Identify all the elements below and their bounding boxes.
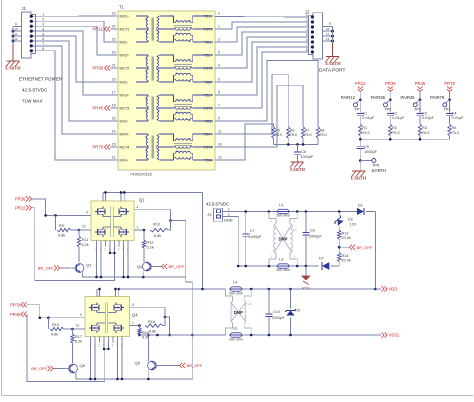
net flag PR45 at T1: [93, 105, 118, 110]
svg-text:2: 2: [306, 18, 308, 22]
svg-text:1: 1: [228, 207, 230, 211]
svg-text:0.01µF: 0.01µF: [362, 116, 375, 120]
wire J1 pin3 to T1: [41, 26, 118, 55]
test point TP4 PAIR78: [430, 95, 451, 112]
svg-text:PR36: PR36: [15, 196, 26, 201]
wire PR12 to Q1 lower input: [32, 208, 115, 281]
svg-text:EARTH: EARTH: [5, 65, 21, 70]
svg-text:TD2-: TD2-: [205, 80, 214, 84]
svg-text:L4: L4: [233, 281, 237, 285]
resistor R9 6.8k: [56, 215, 92, 237]
svg-text:18: 18: [112, 104, 116, 108]
test point TP3 PAIR45: [401, 95, 422, 112]
svg-text:6.8k: 6.8k: [154, 234, 161, 238]
ground EARTH J1: [5, 61, 21, 70]
svg-text:10: 10: [218, 143, 222, 147]
svg-text:R6: R6: [290, 128, 295, 132]
inductor L6 300 ohm: [229, 327, 243, 342]
svg-text:75.0: 75.0: [392, 131, 399, 135]
svg-text:20: 20: [112, 51, 116, 55]
capacitor C1 0.01uF: [357, 100, 375, 124]
wire T1 row8 to J2 pin8: [215, 52, 312, 108]
svg-text:15: 15: [112, 143, 116, 147]
wire T1 row3 to J2 pin3: [215, 27, 312, 42]
net flag BR_OFF Q2: [155, 264, 185, 269]
net flag VDD: [375, 286, 397, 291]
resistor R10 6.8k: [134, 221, 171, 238]
wire VSS1 rail: [140, 334, 382, 337]
svg-text:14: 14: [112, 130, 116, 134]
resistor R15 6.8k: [48, 318, 85, 337]
svg-text:1: 1: [218, 25, 220, 29]
svg-text:R13: R13: [342, 231, 349, 235]
net flag PR78 test network: [444, 81, 455, 100]
svg-text:22: 22: [112, 38, 116, 42]
wire mid top rail: [245, 210, 357, 213]
wire Q6 emitter to rail: [75, 373, 77, 379]
zener D3: [285, 289, 300, 335]
net flag PR12 bridge1: [15, 205, 32, 210]
wire J1 shield to earth: [12, 27, 14, 61]
mosfet Q1A: [95, 207, 105, 217]
wire TP network common rail: [359, 138, 450, 141]
svg-text:C2: C2: [392, 111, 397, 115]
svg-text:TD4-: TD4-: [205, 158, 214, 162]
svg-text:PR45: PR45: [10, 312, 21, 317]
svg-text:MX2+: MX2+: [120, 53, 130, 57]
svg-text:VDD: VDD: [389, 287, 398, 292]
wire Q2 emitter: [142, 271, 144, 277]
svg-text:PR36: PR36: [385, 81, 396, 86]
svg-text:EARTH: EARTH: [290, 167, 305, 172]
svg-text:4: 4: [137, 205, 139, 209]
svg-text:4: 4: [218, 64, 220, 68]
svg-text:6.2k: 6.2k: [75, 340, 82, 344]
svg-text:PAIR12: PAIR12: [341, 95, 356, 100]
svg-text:9: 9: [329, 22, 331, 26]
wire J1 pin8 to T1: [41, 51, 118, 160]
wire T1 row5 to J2 pin5: [215, 37, 312, 68]
svg-text:MX4+: MX4+: [120, 132, 130, 136]
connector J2: [305, 10, 334, 60]
resistor R4 75.0: [448, 124, 459, 139]
wire PR36 to Q1 input: [32, 199, 91, 217]
svg-text:C1: C1: [362, 111, 367, 115]
svg-text:10: 10: [15, 27, 19, 31]
svg-text:PR78: PR78: [444, 81, 455, 86]
wire J1 pin1 to T1: [41, 15, 118, 17]
svg-text:PAIR45: PAIR45: [401, 95, 416, 100]
svg-text:Q6: Q6: [80, 363, 86, 368]
net flag BR_OFF Q3: [38, 265, 72, 270]
svg-text:R1: R1: [362, 126, 367, 130]
svg-text:1000pF: 1000pF: [272, 316, 286, 320]
svg-text:MX4-: MX4-: [120, 158, 129, 162]
svg-text:PR12: PR12: [93, 27, 104, 32]
wire T1 row2 to J2 pin2: [215, 22, 312, 29]
svg-text:L2: L2: [293, 228, 297, 232]
transistor Q5: [135, 334, 160, 370]
svg-text:R16: R16: [148, 320, 155, 324]
bridge Q1 body: [91, 198, 145, 241]
T1 winding group 1: [136, 16, 213, 42]
wire J1 pin2 to T1: [41, 21, 118, 42]
svg-text:0.01µF: 0.01µF: [422, 116, 435, 120]
wire T1 lower row to R network 1: [215, 61, 318, 127]
svg-text:R11: R11: [82, 238, 89, 242]
svg-text:C6: C6: [301, 150, 306, 154]
svg-text:75.0: 75.0: [452, 131, 459, 135]
svg-text:J1: J1: [22, 6, 27, 11]
net flag VSS1: [382, 332, 400, 337]
ground EARTH J2: [325, 57, 341, 66]
svg-text:L1: L1: [279, 203, 283, 207]
wire J1 pin7 to T1: [41, 46, 118, 134]
capacitor C7 1000pF: [242, 212, 262, 267]
svg-text:9: 9: [15, 22, 17, 26]
svg-text:300 ohm: 300 ohm: [229, 338, 243, 342]
svg-text:D1: D1: [358, 204, 363, 208]
svg-text:RTN: RTN: [302, 287, 310, 291]
svg-text:PR45: PR45: [415, 81, 426, 86]
svg-text:71W MAX: 71W MAX: [22, 99, 43, 104]
ground EARTH TP network: [351, 161, 367, 181]
svg-text:1: 1: [306, 13, 308, 17]
svg-text:300 ohm: 300 ohm: [276, 214, 290, 218]
resistor R11 6.2k: [77, 230, 88, 262]
svg-text:R8: R8: [320, 128, 325, 132]
svg-text:ETHERNET POWER: ETHERNET POWER: [19, 77, 63, 82]
svg-text:7490220122: 7490220122: [130, 172, 153, 177]
net flag BR_OFF mid: [339, 245, 373, 250]
capacitor C8 1000pF: [302, 212, 322, 267]
svg-text:5: 5: [218, 51, 220, 55]
svg-text:PAIR36: PAIR36: [371, 95, 386, 100]
svg-text:6: 6: [306, 38, 308, 42]
svg-text:TD3+: TD3+: [204, 93, 213, 97]
svg-text:MCT4: MCT4: [120, 145, 130, 149]
transistor Q3: [72, 263, 92, 273]
svg-text:TD4+: TD4+: [204, 132, 213, 136]
net flag PR36 bridge1: [15, 196, 32, 201]
svg-text:7: 7: [218, 104, 220, 108]
svg-text:75.0: 75.0: [275, 133, 282, 137]
mosfet Q4C: [89, 323, 99, 333]
resistor R12 6.2k: [142, 230, 153, 262]
svg-text:300 ohm: 300 ohm: [276, 268, 290, 272]
svg-text:75.0: 75.0: [305, 133, 312, 137]
svg-text:R17: R17: [75, 335, 82, 339]
resistor R14 20.0k: [338, 253, 351, 267]
wire T1 lower row to R network 3: [215, 85, 303, 147]
svg-text:L5: L5: [248, 302, 252, 306]
resistor R7 75.0: [301, 127, 311, 145]
wire J3 pin1 to top rail: [223, 211, 246, 213]
inductor L2 DNP: [269, 212, 297, 267]
svg-text:0.01µF: 0.01µF: [452, 116, 465, 120]
svg-text:DATA PORT: DATA PORT: [319, 68, 345, 74]
Q1 internal wiring: [103, 207, 121, 238]
wire T1 row1 to J2 pin1: [215, 16, 312, 19]
svg-text:Q2: Q2: [137, 264, 143, 269]
svg-text:75.0: 75.0: [290, 133, 297, 137]
resistor R13 20.0k: [338, 230, 351, 253]
svg-text:Q3: Q3: [86, 263, 92, 268]
Q1 bottom stubs: [96, 241, 130, 278]
svg-text:2: 2: [218, 12, 220, 16]
svg-text:12: 12: [218, 156, 222, 160]
svg-text:C10: C10: [273, 310, 280, 314]
transistor Q6: [66, 363, 86, 373]
svg-text:R9: R9: [59, 224, 64, 228]
svg-text:C5: C5: [364, 145, 369, 149]
test point TP2 PAIR36: [371, 95, 392, 112]
svg-text:L6: L6: [233, 327, 237, 331]
inductor L4 300 ohm: [229, 281, 243, 296]
svg-text:11: 11: [218, 130, 222, 134]
svg-text:5: 5: [306, 33, 308, 37]
svg-text:L3: L3: [279, 258, 283, 262]
svg-text:BR_OFF: BR_OFF: [31, 366, 47, 371]
svg-text:MX1-: MX1-: [120, 40, 129, 44]
wire T1 lower row to R network 2: [215, 74, 288, 134]
test point TP5: [359, 159, 386, 173]
svg-text:12: 12: [76, 324, 80, 328]
svg-text:TD1+: TD1+: [204, 14, 213, 18]
svg-text:6.2k: 6.2k: [147, 246, 154, 250]
svg-text:20.0k: 20.0k: [342, 236, 351, 240]
resistor R18 6.2k: [138, 326, 149, 340]
svg-text:17: 17: [112, 91, 116, 95]
svg-text:42.5-57VDC: 42.5-57VDC: [206, 202, 229, 207]
svg-text:GND: GND: [224, 219, 233, 223]
resistor R1 75.0: [359, 124, 370, 139]
svg-text:19: 19: [112, 78, 116, 82]
svg-text:R10: R10: [153, 222, 160, 226]
T1 pin names: [120, 14, 214, 162]
svg-text:R2: R2: [392, 126, 397, 130]
wire T1 row6 to J2 pin6: [215, 42, 312, 82]
wire bridge2 bottom rail: [76, 378, 192, 381]
svg-text:6.2k: 6.2k: [82, 243, 89, 247]
svg-text:TCT2: TCT2: [204, 66, 213, 70]
wire Q5 emitter: [147, 370, 150, 380]
T1 winding group 4: [136, 134, 213, 160]
resistor R2 75.0: [389, 124, 400, 139]
T1 left pin numbers: [112, 12, 116, 160]
svg-text:12: 12: [82, 225, 86, 229]
connector J1: [12, 6, 45, 58]
wire bridge1 output to VDD rail: [202, 192, 204, 289]
svg-text:MCT3: MCT3: [120, 106, 130, 110]
svg-text:8: 8: [306, 48, 308, 52]
zener D2 12V: [333, 212, 357, 231]
svg-text:D3: D3: [295, 309, 300, 313]
svg-text:Q1: Q1: [139, 198, 145, 203]
svg-text:R7: R7: [305, 128, 310, 132]
svg-text:EARTH: EARTH: [351, 176, 367, 181]
inductor L3 300 ohm: [276, 258, 290, 273]
svg-text:Q5: Q5: [135, 361, 141, 366]
resistor R16 6.8k: [130, 317, 166, 333]
svg-text:C3: C3: [422, 111, 427, 115]
svg-text:1000µF: 1000µF: [364, 150, 378, 154]
svg-text:2: 2: [42, 17, 44, 21]
svg-text:6.8k: 6.8k: [51, 333, 58, 337]
svg-text:21: 21: [112, 64, 116, 68]
svg-text:TCT1: TCT1: [204, 27, 213, 31]
svg-text:0.01µF: 0.01µF: [392, 116, 405, 120]
svg-text:R12: R12: [147, 241, 154, 245]
svg-text:23: 23: [112, 12, 116, 16]
capacitor C3 0.01uF: [417, 100, 435, 124]
svg-text:TP5: TP5: [372, 163, 379, 167]
wire Q1 right output: [134, 205, 186, 277]
svg-text:9: 9: [80, 313, 82, 317]
svg-text:42.5-57VDC: 42.5-57VDC: [22, 88, 48, 93]
wire PR78 to Q4 input: [27, 305, 85, 319]
mosfet Q1B: [119, 207, 129, 217]
svg-text:PR12: PR12: [15, 205, 26, 210]
wire J1 pin6 to T1: [41, 41, 118, 121]
transformer T1 body: [118, 5, 215, 171]
svg-text:75.0: 75.0: [320, 133, 327, 137]
svg-text:R14: R14: [342, 254, 349, 258]
svg-text:75.0: 75.0: [362, 131, 369, 135]
capacitor C4 0.01uF: [446, 100, 464, 124]
net flag PR78 at T1: [93, 144, 118, 149]
svg-text:12: 12: [15, 37, 19, 41]
svg-text:10: 10: [326, 27, 330, 31]
svg-text:D2: D2: [348, 217, 353, 221]
resistor R5 75.0: [272, 127, 282, 145]
Q4 bottom stubs: [90, 336, 124, 379]
svg-text:R4: R4: [452, 126, 457, 130]
bridge Q4 body: [85, 297, 138, 337]
svg-text:16: 16: [112, 117, 116, 121]
svg-text:C4: C4: [452, 111, 457, 115]
svg-text:1000pF: 1000pF: [309, 235, 323, 239]
svg-text:PR12: PR12: [355, 81, 366, 86]
label data port: [319, 68, 345, 74]
net flag PR12 test network: [355, 81, 366, 100]
mosfet Q4A: [89, 303, 99, 313]
svg-text:MCT2: MCT2: [120, 66, 130, 70]
mosfet Q4D: [114, 323, 124, 333]
wire J1 pin4 to T1: [41, 31, 118, 95]
svg-text:12V: 12V: [350, 222, 357, 226]
power RTN: [302, 266, 310, 291]
T1 winding group 3: [136, 95, 213, 121]
capacitor C2 0.01uF: [387, 100, 405, 124]
svg-text:DNP: DNP: [234, 310, 243, 315]
resistor R3 75.0: [418, 124, 429, 139]
svg-text:3: 3: [42, 22, 44, 26]
svg-text:11: 11: [326, 32, 329, 36]
net flag PR36 at T1: [93, 65, 118, 70]
svg-text:24: 24: [112, 25, 116, 29]
ground EARTH C6: [290, 162, 306, 172]
svg-text:MX3+: MX3+: [120, 93, 130, 97]
svg-text:PR78: PR78: [10, 302, 21, 307]
svg-text:6: 6: [218, 78, 220, 82]
svg-text:PR36: PR36: [93, 66, 104, 71]
svg-text:9: 9: [86, 211, 88, 215]
net flag PR45 bridge2: [10, 312, 27, 317]
svg-text:BR_OFF: BR_OFF: [357, 245, 373, 250]
inductor L1 300 ohm: [276, 203, 290, 218]
wire T1 row4 to J2 pin4: [215, 32, 312, 55]
wire J3 GND down: [223, 217, 246, 268]
svg-text:TCT4: TCT4: [204, 145, 213, 149]
wire D1 to VDD corner: [374, 212, 376, 290]
svg-text:PAIR78: PAIR78: [430, 95, 445, 100]
svg-text:8: 8: [218, 91, 220, 95]
svg-text:C8: C8: [310, 229, 315, 233]
svg-text:1: 1: [132, 321, 134, 325]
wire Q4 top rail: [97, 288, 120, 297]
svg-text:VSS1: VSS1: [389, 333, 400, 338]
svg-text:MX1+: MX1+: [120, 14, 130, 18]
diode D1: [352, 204, 375, 216]
wire J2 shield to earth: [332, 27, 334, 57]
T1 winding group 2: [136, 55, 213, 82]
T1 right pin numbers: [218, 12, 222, 160]
net flag BR_OFF Q6: [31, 366, 65, 371]
test point TP1 PAIR12: [341, 95, 362, 112]
wire T1 row7 to J2 pin7: [215, 47, 312, 95]
mosfet Q4B: [114, 303, 124, 313]
transistor Q2: [137, 262, 155, 271]
net flag BR_OFF Q5: [160, 363, 203, 368]
mosfet Q1C: [95, 227, 105, 237]
svg-text:BR_OFF: BR_OFF: [38, 266, 54, 271]
svg-text:75.0: 75.0: [422, 131, 429, 135]
wire mid bottom rail: [245, 265, 340, 268]
svg-text:BR_OFF: BR_OFF: [169, 264, 185, 269]
T1 part number: [130, 172, 153, 177]
capacitor C10 1000pF: [265, 289, 285, 335]
svg-text:T1: T1: [119, 5, 125, 10]
capacitor C6 1000pF: [294, 144, 314, 161]
net flag PR36 test network: [385, 81, 396, 100]
svg-text:R5: R5: [275, 128, 280, 132]
wire J1 pin5 to T1: [41, 36, 118, 82]
svg-text:MCT1: MCT1: [120, 27, 130, 31]
net flag PR45 test network: [415, 81, 426, 100]
svg-text:MX3-: MX3-: [120, 119, 129, 123]
svg-text:TD3-: TD3-: [205, 119, 214, 123]
svg-text:TCT3: TCT3: [204, 106, 213, 110]
svg-text:1: 1: [137, 226, 139, 230]
svg-text:EARTH: EARTH: [325, 61, 341, 66]
resistor R17 6.2k: [71, 329, 82, 363]
inductor L5 DNP: [226, 289, 252, 335]
svg-text:TD2+: TD2+: [204, 53, 213, 57]
svg-text:1000pF: 1000pF: [300, 155, 314, 159]
mosfet Q1D: [119, 227, 129, 237]
svg-text:12: 12: [326, 37, 330, 41]
svg-text:7: 7: [306, 43, 308, 47]
net flag PR78 bridge2: [10, 302, 27, 307]
svg-text:R3: R3: [422, 126, 427, 130]
svg-text:MX2-: MX2-: [120, 80, 129, 84]
connector J3: [206, 202, 233, 223]
resistor R8 75.0: [316, 127, 326, 145]
svg-text:6.8k: 6.8k: [149, 329, 156, 333]
svg-text:R15: R15: [52, 323, 59, 327]
svg-text:C7: C7: [250, 229, 255, 233]
